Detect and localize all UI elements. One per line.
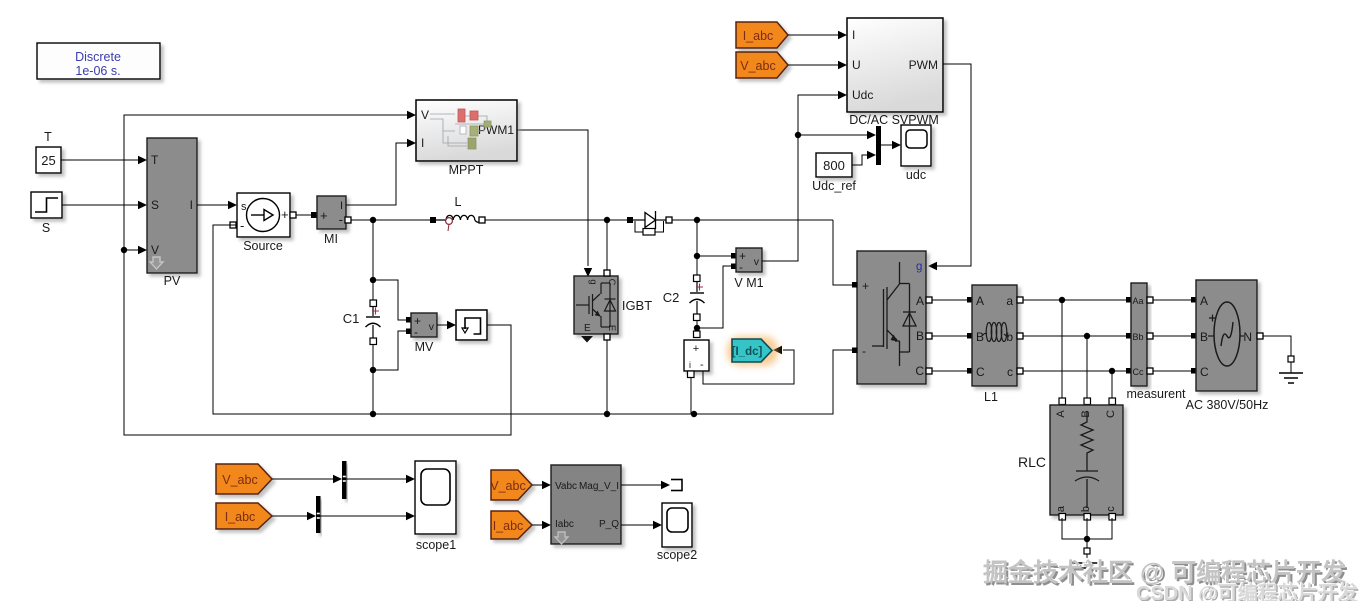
svg-text:+: + xyxy=(862,279,869,293)
svg-text:C1: C1 xyxy=(343,311,360,326)
voltage measurement V M1 xyxy=(734,248,763,290)
svg-text:-: - xyxy=(862,344,866,358)
wire Udc_ref to mux xyxy=(852,151,876,165)
from tag I_abc scope1 xyxy=(216,503,316,529)
svg-text:scope2: scope2 xyxy=(657,548,697,562)
svg-text:i: i xyxy=(689,360,691,370)
wire MPPT.PWM1 to IGBT.g xyxy=(517,130,592,277)
watermark csdn xyxy=(1136,577,1358,601)
svg-text:C: C xyxy=(1200,365,1209,379)
svg-text:AC 380V/50Hz: AC 380V/50Hz xyxy=(1186,398,1269,412)
wire phase c xyxy=(1023,370,1126,372)
svg-text:B: B xyxy=(916,329,924,343)
svg-text:PWM1: PWM1 xyxy=(478,123,514,137)
wire VM1.v to Udc and mux xyxy=(762,91,876,261)
controlled current source Source xyxy=(237,193,290,253)
annotation Discrete sample time xyxy=(37,43,160,79)
svg-text:I: I xyxy=(852,28,855,42)
svg-text:I_abc: I_abc xyxy=(493,519,524,533)
svg-text:C: C xyxy=(606,279,617,286)
node minus-Imeas xyxy=(691,411,697,417)
node V-PV tap xyxy=(121,246,147,254)
svg-text:PV: PV xyxy=(164,274,181,288)
wire phase C xyxy=(932,370,967,372)
wire IGBT.E to minus bus xyxy=(606,340,608,414)
block PV xyxy=(147,138,197,288)
current measurement MI xyxy=(317,196,346,246)
svg-text:+: + xyxy=(693,343,699,355)
svg-text:Udc_ref: Udc_ref xyxy=(812,179,856,193)
svg-text:I: I xyxy=(190,198,193,212)
svg-text:+: + xyxy=(320,208,328,223)
diode D with snubber xyxy=(627,211,672,235)
svg-text:L: L xyxy=(455,195,462,209)
svg-text:g: g xyxy=(588,279,599,284)
svg-text:Vabc: Vabc xyxy=(555,481,577,492)
mux xyxy=(876,126,881,165)
svg-text:I: I xyxy=(340,200,343,212)
svg-text:measurent: measurent xyxy=(1126,387,1186,401)
port MI.plus xyxy=(311,212,317,218)
port MV.minus xyxy=(406,329,412,335)
svg-text:B: B xyxy=(976,330,984,344)
svg-text:MI: MI xyxy=(324,232,338,246)
capacitor C1 branch xyxy=(343,220,381,414)
svg-text:Iabc: Iabc xyxy=(555,519,574,530)
svg-text:v: v xyxy=(429,321,435,333)
wire Source.plus to MI.plus xyxy=(296,214,311,216)
wire Imeas.i to goto xyxy=(703,346,794,384)
constant T = 25 xyxy=(36,130,61,173)
svg-text:C2: C2 xyxy=(663,290,680,305)
svg-text:+: + xyxy=(281,207,289,222)
svg-text:MPPT: MPPT xyxy=(449,163,484,177)
ground right xyxy=(1279,356,1303,383)
wire T to PV xyxy=(61,156,147,164)
svg-text:a: a xyxy=(1055,505,1067,512)
svg-text:25: 25 xyxy=(41,153,55,168)
svg-text:I_abc: I_abc xyxy=(743,29,774,43)
wire S to PV xyxy=(62,201,147,209)
wire phase a xyxy=(1023,299,1126,301)
svg-text:-: - xyxy=(739,260,743,274)
wire phase A xyxy=(932,299,967,301)
wire Mag_V_I to terminator xyxy=(621,481,670,489)
svg-text:B: B xyxy=(1200,330,1208,344)
node bus-IGBT xyxy=(604,217,610,223)
svg-text:v: v xyxy=(754,256,760,268)
wire MV.v to rate block xyxy=(437,321,456,329)
svg-text:U: U xyxy=(852,58,861,72)
svg-text:B: B xyxy=(1080,410,1092,417)
from tag V_abc scope1 xyxy=(216,464,342,494)
port inverter.C xyxy=(926,368,932,374)
svg-text:N: N xyxy=(1243,330,1252,344)
svg-text:L1: L1 xyxy=(984,390,998,404)
wire P_Q to scope2 xyxy=(621,521,662,529)
svg-text:S: S xyxy=(151,198,159,212)
wire C2 bottom node to VM1.minus xyxy=(697,266,731,328)
svg-text:T: T xyxy=(44,130,52,144)
wire C1 to MV.plus xyxy=(373,280,407,320)
svg-text:scope1: scope1 xyxy=(416,538,456,552)
subsystem MPPT xyxy=(416,100,517,177)
svg-text:Discrete: Discrete xyxy=(75,50,121,64)
port inverter.B xyxy=(926,333,932,339)
port VM1.plus xyxy=(731,253,737,259)
wire Imeas to minus bus xyxy=(690,378,692,414)
RLC load block xyxy=(1018,398,1123,520)
svg-text:V: V xyxy=(421,108,429,122)
subsystem DC/AC SVPWM xyxy=(847,18,943,127)
from tag I_abc top xyxy=(736,22,847,48)
goto tag I_dc xyxy=(727,336,778,366)
svg-text:-: - xyxy=(414,325,418,339)
wire DC plus bus xyxy=(351,220,852,285)
port IGBT.E xyxy=(604,334,610,340)
port inverter.minus xyxy=(852,348,858,354)
from tag V_abc top xyxy=(736,52,847,78)
svg-text:V M1: V M1 xyxy=(734,276,763,290)
port inverter.A xyxy=(926,297,932,303)
constant Udc_ref = 800 xyxy=(812,153,856,193)
svg-text:T: T xyxy=(151,153,159,167)
svg-text:V_abc: V_abc xyxy=(740,59,775,73)
wire N to ground xyxy=(1263,336,1291,356)
svg-text:Source: Source xyxy=(243,239,283,253)
from tag V_abc power xyxy=(490,470,551,500)
svg-text:s: s xyxy=(241,201,247,213)
svg-text:Cc: Cc xyxy=(1133,367,1144,377)
svg-text:800: 800 xyxy=(823,158,845,173)
wire V feedback loop xyxy=(124,111,511,435)
power measurement subsystem xyxy=(551,465,621,544)
step source S xyxy=(31,192,62,235)
wire IGBT.C to bus xyxy=(606,220,608,270)
three-phase inductor L1 xyxy=(967,285,1023,404)
svg-text:IGBT: IGBT xyxy=(622,298,652,313)
port VM1.minus xyxy=(731,264,737,270)
svg-text:V_abc: V_abc xyxy=(490,479,525,493)
rate transition block xyxy=(456,310,487,340)
wire measurent to AC C xyxy=(1153,370,1191,372)
svg-text:A: A xyxy=(976,294,984,308)
inverter block xyxy=(857,251,926,384)
svg-text:PWM: PWM xyxy=(909,58,938,72)
current measurement Idc block xyxy=(684,331,709,378)
port MV.plus xyxy=(406,317,412,323)
svg-text:E: E xyxy=(606,325,617,331)
measurement block measurent xyxy=(1126,283,1186,401)
svg-text:E: E xyxy=(584,323,591,334)
svg-text:1e-06 s.: 1e-06 s. xyxy=(75,64,120,78)
svg-text:V_abc: V_abc xyxy=(222,473,257,487)
wire mux to scope udc xyxy=(881,141,901,149)
svg-text:RLC: RLC xyxy=(1018,454,1046,470)
svg-text:S: S xyxy=(42,221,50,235)
wire PV.I to Source.s xyxy=(197,201,237,209)
svg-text:udc: udc xyxy=(906,168,926,182)
wire demux1 to scope1 xyxy=(347,475,416,483)
svg-text:Udc: Udc xyxy=(852,88,873,102)
scope udc xyxy=(901,125,931,182)
node c-RLC xyxy=(1109,368,1115,401)
wire phase b xyxy=(1023,335,1126,337)
svg-text:a: a xyxy=(1006,294,1013,308)
node b-RLC xyxy=(1084,333,1090,401)
capacitor C2 branch xyxy=(663,220,705,333)
svg-text:Aa: Aa xyxy=(1133,296,1144,306)
scope2 xyxy=(657,503,697,562)
svg-text:MV: MV xyxy=(415,340,434,354)
svg-text:A: A xyxy=(916,294,924,308)
svg-text:I_abc: I_abc xyxy=(225,510,256,524)
svg-text:c: c xyxy=(1007,365,1013,379)
svg-text:C: C xyxy=(1105,410,1117,418)
svg-text:C: C xyxy=(976,365,985,379)
svg-text:A: A xyxy=(1200,294,1208,308)
port inverter.plus xyxy=(852,282,858,288)
wire measurent to AC A xyxy=(1153,299,1191,301)
watermark juejin xyxy=(983,553,1346,589)
svg-text:-: - xyxy=(240,218,244,233)
port IGBT.C xyxy=(604,270,610,276)
port AC.N xyxy=(1257,333,1263,339)
svg-text:b: b xyxy=(1080,506,1092,512)
inductor L xyxy=(430,195,485,231)
svg-text:P_Q: P_Q xyxy=(599,519,619,530)
wire RLC to ground xyxy=(1062,518,1112,548)
terminator xyxy=(671,479,682,492)
node bus-C1 xyxy=(370,217,376,223)
node a-RLC xyxy=(1059,297,1065,401)
node minus-IGBT xyxy=(604,411,610,417)
block IGBT xyxy=(574,276,652,343)
svg-text:[I_dc]: [I_dc] xyxy=(732,346,763,358)
svg-text:Mag_V_I: Mag_V_I xyxy=(579,481,619,492)
wire C1 to MV.minus xyxy=(373,331,407,370)
demux 2 xyxy=(316,496,321,533)
node bus-C2 xyxy=(694,217,700,223)
from tag I_abc power xyxy=(491,511,551,539)
port Source.plus xyxy=(290,212,296,218)
svg-text:-: - xyxy=(339,212,343,227)
port MI.minus xyxy=(345,217,351,223)
svg-text:g: g xyxy=(916,261,922,273)
wire measurent to AC B xyxy=(1153,335,1191,337)
scope1 xyxy=(415,461,456,552)
AC source 380V/50Hz xyxy=(1186,280,1269,412)
wire phase B xyxy=(932,335,967,337)
svg-text:c: c xyxy=(1105,506,1117,512)
svg-text:I: I xyxy=(421,136,424,150)
svg-text:A: A xyxy=(1055,410,1067,418)
port Source.minus xyxy=(230,222,236,228)
wire demux2 to scope1 xyxy=(321,512,416,520)
svg-text:-: - xyxy=(700,359,704,371)
wire C2 node to VM1.plus xyxy=(697,255,731,257)
svg-text:V: V xyxy=(151,243,159,257)
node minus-C1 xyxy=(370,411,376,417)
wire DC minus bus xyxy=(213,225,852,414)
voltage measurement MV xyxy=(411,313,437,354)
svg-text:C: C xyxy=(915,364,924,378)
wire PWM to inverter.g xyxy=(934,64,971,266)
demux 1 xyxy=(342,461,347,499)
wire MI.I to MPPT.I xyxy=(346,139,416,205)
svg-text:Bb: Bb xyxy=(1133,332,1144,342)
ground bottom xyxy=(1073,548,1101,573)
